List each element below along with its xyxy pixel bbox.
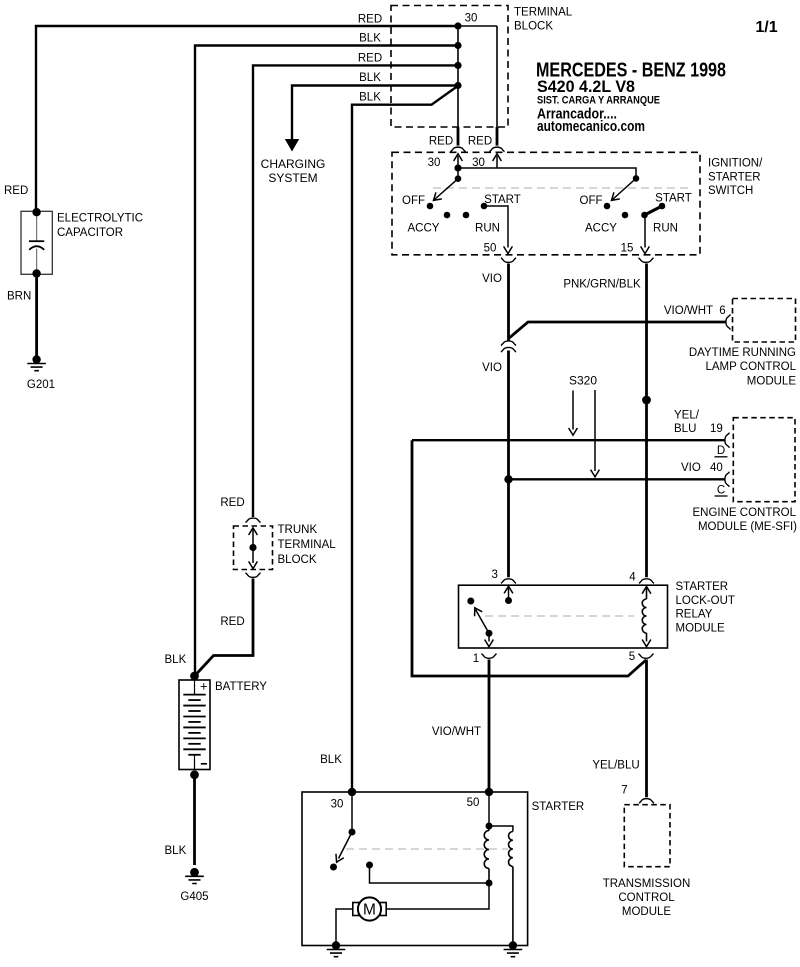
svg-text:SWITCH: SWITCH <box>708 185 753 197</box>
contact OFF left <box>427 203 434 210</box>
ignition/starter switch dashed box <box>392 152 700 255</box>
node trunk block dot <box>249 544 256 551</box>
motor M terminal tabs <box>353 903 386 916</box>
wire VIO/WHT branch to DRL module <box>509 322 727 339</box>
svg-text:D: D <box>717 445 725 457</box>
contact START right <box>659 203 666 210</box>
wire YEL/BLU to ECM pin D <box>412 439 725 441</box>
svg-text:VIO: VIO <box>482 273 502 285</box>
svg-text:RED: RED <box>4 185 28 197</box>
connector below relay pin 1 <box>481 654 496 658</box>
label IGNITION/STARTER SWITCH <box>708 157 763 197</box>
node starter switch pivot <box>349 829 356 836</box>
label page 1/1 <box>755 19 777 36</box>
svg-text:VIO/WHT: VIO/WHT <box>664 305 713 317</box>
daytime running lamp control module dashed box <box>733 299 796 343</box>
label 7 <box>621 785 627 797</box>
wire pull-in contact <box>370 865 490 883</box>
label RED W1 <box>358 14 382 26</box>
svg-text:IGNITION/: IGNITION/ <box>708 157 763 169</box>
label VIO upper <box>482 273 502 285</box>
label pin D <box>715 445 728 457</box>
svg-text:BLOCK: BLOCK <box>514 20 553 32</box>
label TERMINAL BLOCK <box>514 6 573 32</box>
svg-text:RED: RED <box>358 53 382 65</box>
connector at relay pin 4 <box>639 579 654 583</box>
trunk terminal block dashed box <box>234 526 273 570</box>
svg-text:RUN: RUN <box>653 223 678 235</box>
contact OFF right <box>604 203 611 210</box>
svg-text:19: 19 <box>710 423 723 435</box>
arrowhead to charging system <box>285 139 299 152</box>
svg-text:BLK: BLK <box>165 845 187 857</box>
svg-text:ENGINE CONTROL: ENGINE CONTROL <box>692 507 796 519</box>
svg-text:ACCY: ACCY <box>585 223 617 235</box>
contact ACCY right <box>622 212 629 219</box>
junction dot W4/W5 <box>454 82 461 89</box>
wire RUN to pin 15 <box>641 215 650 254</box>
terminal block dashed box <box>391 6 508 128</box>
svg-text:S420 4.2L V8: S420 4.2L V8 <box>537 78 635 96</box>
svg-text:CONTROL: CONTROL <box>618 892 675 904</box>
connector below pin 50 <box>501 258 516 262</box>
junction dot solenoid top <box>486 823 493 830</box>
label BRN <box>7 291 31 303</box>
svg-text:BATTERY: BATTERY <box>215 681 267 693</box>
junction dot battery positive <box>190 672 199 681</box>
label pin 1 <box>473 653 479 665</box>
starter solenoid feed <box>488 792 490 826</box>
svg-text:M: M <box>363 902 376 919</box>
wire PNK/GRN/BLK from pin 15 <box>645 264 648 578</box>
svg-text:STARTER: STARTER <box>708 172 761 184</box>
ground dot G405 <box>190 868 199 877</box>
wire BLK charging-system branch (W4) <box>292 86 458 141</box>
junction dot starter 50 <box>485 788 493 796</box>
label START right <box>655 193 692 205</box>
label BLK battery positive <box>165 654 187 666</box>
wire RED terminal block to switch 30 right <box>496 127 499 146</box>
svg-text:PNK/GRN/BLK: PNK/GRN/BLK <box>563 279 641 291</box>
svg-text:OFF: OFF <box>402 195 425 207</box>
svg-text:4: 4 <box>629 572 636 584</box>
label 30 starter <box>331 799 344 811</box>
svg-text:30: 30 <box>465 13 478 25</box>
connector below trunk terminal block <box>245 573 260 577</box>
label S320 <box>569 374 597 388</box>
svg-text:BLOCK: BLOCK <box>278 554 317 566</box>
transmission control module dashed box <box>624 805 670 867</box>
label - battery <box>201 763 207 765</box>
svg-text:DAYTIME RUNNING: DAYTIME RUNNING <box>689 347 796 359</box>
ground dot starter left <box>332 941 340 949</box>
wire YEL/BLU relay pin5 to TCM <box>645 660 648 798</box>
svg-text:MODULE: MODULE <box>622 906 672 918</box>
battery box <box>179 680 210 770</box>
connector below relay pin 5 <box>638 654 653 658</box>
ground symbol starter right <box>504 950 523 957</box>
svg-text:MODULE: MODULE <box>676 623 726 635</box>
svg-text:S320: S320 <box>569 374 597 388</box>
label RUN right <box>653 223 678 235</box>
contact RUN right <box>641 212 648 219</box>
label DAYTIME RUNNING LAMP CONTROL MODULE <box>689 347 797 388</box>
svg-text:5: 5 <box>629 651 635 663</box>
svg-text:OFF: OFF <box>580 195 603 207</box>
label ENGINE CONTROL MODULE (ME-SFI) <box>692 507 797 533</box>
wire BLK to terminal block (W2) <box>195 46 458 677</box>
contact RUN left <box>463 212 470 219</box>
label 50 <box>484 243 497 255</box>
label pin 5 <box>629 651 635 663</box>
svg-text:CHARGING: CHARGING <box>261 157 326 171</box>
junction dot W3 <box>454 62 461 69</box>
relay pin 1 lead <box>485 633 494 646</box>
svg-text:VIO/WHT: VIO/WHT <box>432 726 481 738</box>
svg-text:RELAY: RELAY <box>676 609 713 621</box>
ground symbol G201 <box>27 364 46 371</box>
label OFF left <box>402 195 425 207</box>
node relay arm fixed contact <box>467 598 474 605</box>
label ACCY left <box>408 223 440 235</box>
connector at TCM pin 7 <box>639 799 654 803</box>
label PNK/GRN/BLK <box>563 279 641 291</box>
solenoid pull-in winding <box>509 832 513 946</box>
node relay pin3 dot <box>505 597 512 604</box>
label ELECTROLYTIC CAPACITOR <box>57 213 143 240</box>
starter lock-out relay module box <box>459 585 668 648</box>
label BLK W2 <box>359 33 381 45</box>
label pin 3 <box>491 569 497 581</box>
label STARTER <box>532 801 585 813</box>
svg-text:ELECTROLYTIC: ELECTROLYTIC <box>57 213 143 225</box>
junction dot VIO/C <box>504 475 512 483</box>
junction dot battery negative <box>190 770 199 779</box>
trunk block lead upper <box>249 528 258 548</box>
svg-text:automecanico.com: automecanico.com <box>537 118 645 135</box>
label TRANSMISSION CONTROL MODULE <box>603 878 691 918</box>
label 50 starter <box>467 797 480 809</box>
junction dot capacitor bottom <box>32 269 40 277</box>
label M motor <box>363 902 376 919</box>
svg-text:YEL/: YEL/ <box>674 409 700 421</box>
label TRUNK TERMINAL BLOCK <box>278 524 337 566</box>
svg-text:VIO: VIO <box>681 462 701 474</box>
switch arm left (to OFF) <box>431 179 458 204</box>
wire BLK starter feed (W5) <box>352 87 457 793</box>
mechanical link dashed (starter) <box>346 848 508 850</box>
wire motor to solenoid contact <box>386 883 489 909</box>
svg-text:15: 15 <box>621 243 634 255</box>
capacitor C1 plate flat <box>29 240 44 242</box>
wire pivot stub left <box>457 168 459 179</box>
starter switch arm <box>333 832 352 864</box>
wire START to pin 50 <box>484 206 512 254</box>
label YEL/BLU lower <box>592 760 639 772</box>
label BATTERY <box>215 681 267 693</box>
connector at switch 30 left <box>450 147 465 151</box>
svg-text:6: 6 <box>719 305 725 317</box>
ground symbol starter left <box>327 950 346 957</box>
mechanical link dashed (ignition) <box>433 187 688 189</box>
svg-text:YEL/BLU: YEL/BLU <box>592 760 639 772</box>
svg-text:1/1: 1/1 <box>755 19 777 36</box>
junction dot bus left <box>454 164 461 171</box>
svg-text:MODULE: MODULE <box>747 376 797 388</box>
solenoid hold-in winding <box>484 826 489 883</box>
electrolytic capacitor C1 box <box>21 211 52 274</box>
ground dot G201 <box>32 355 40 363</box>
svg-text:STARTER: STARTER <box>532 801 585 813</box>
svg-text:7: 7 <box>621 785 627 797</box>
label 30 left <box>428 157 441 169</box>
svg-text:50: 50 <box>484 243 497 255</box>
svg-text:MODULE (ME-SFI): MODULE (ME-SFI) <box>698 521 797 533</box>
svg-text:TRANSMISSION: TRANSMISSION <box>603 878 691 890</box>
svg-text:TERMINAL: TERMINAL <box>514 6 573 18</box>
connector at switch 30 right <box>489 147 504 151</box>
label BLK W4 <box>359 72 381 84</box>
junction dot solenoid bottom <box>486 880 493 887</box>
title MERCEDES - BENZ 1998 <box>536 60 726 82</box>
svg-text:BLK: BLK <box>359 92 381 104</box>
svg-text:40: 40 <box>710 462 723 474</box>
label pin 4 <box>629 572 636 584</box>
junction dot starter 30 <box>348 788 356 796</box>
connector at ECM pin C <box>725 472 729 487</box>
capacitor C1 top lead <box>36 212 38 241</box>
relay switch arm <box>471 606 489 634</box>
svg-text:BRN: BRN <box>7 291 31 303</box>
svg-text:BLK: BLK <box>359 72 381 84</box>
svg-text:BLK: BLK <box>359 33 381 45</box>
switch arm right (to OFF) <box>609 178 636 203</box>
svg-text:RED: RED <box>429 136 453 148</box>
junction dot on PNK/GRN/BLK wire <box>642 396 651 405</box>
wire loop ECM-D to relay pin 5 <box>412 440 646 676</box>
label CHARGING SYSTEM <box>261 157 326 185</box>
svg-text:START: START <box>655 193 692 205</box>
svg-text:RUN: RUN <box>475 223 500 235</box>
svg-text:G201: G201 <box>27 379 55 391</box>
splice arrow S320 to VIO wire <box>591 390 600 477</box>
starter motor M <box>358 897 381 920</box>
capacitor C1 plate curved <box>29 246 44 250</box>
switch blade RUN-START <box>645 206 663 215</box>
label VIO/WHT lower <box>432 726 481 738</box>
svg-text:RED: RED <box>358 14 382 26</box>
junction dot W1 <box>454 22 461 29</box>
svg-text:50: 50 <box>467 797 480 809</box>
label RED lower <box>220 616 244 628</box>
junction dot capacitor top <box>32 208 40 216</box>
label START left <box>484 194 521 206</box>
wire VIO to relay pin 3 <box>507 351 510 578</box>
node relay arm pivot <box>486 630 493 637</box>
svg-text:CAPACITOR: CAPACITOR <box>57 227 123 239</box>
node switch pivot right <box>633 175 640 182</box>
label G201 <box>27 379 55 391</box>
wire RED terminal block to switch 30 left <box>457 127 460 146</box>
ground dot starter right <box>509 941 517 949</box>
battery cell plates <box>183 680 205 770</box>
connector at ECM pin D <box>725 433 729 448</box>
splice arrow S320 to YEL/BLU wire <box>569 391 578 436</box>
svg-text:30: 30 <box>472 157 485 169</box>
ground symbol G405 <box>185 876 204 883</box>
label + battery <box>200 679 208 694</box>
label RUN left <box>475 223 500 235</box>
label RED left feeder <box>429 136 453 148</box>
svg-text:START: START <box>484 194 521 206</box>
capacitor C1 bottom lead <box>36 249 38 274</box>
svg-text:VIO: VIO <box>482 362 502 374</box>
wire RED trunk feed (W3) <box>253 65 458 517</box>
connector at DRL module <box>726 314 730 329</box>
svg-text:C: C <box>717 484 725 496</box>
label RED right feeder <box>468 136 492 148</box>
svg-text:3: 3 <box>491 569 497 581</box>
svg-text:RED: RED <box>468 136 492 148</box>
wire VIO to ECM pin C <box>509 478 726 480</box>
svg-text:1: 1 <box>473 653 479 665</box>
wire RED trunk block to battery <box>195 579 254 677</box>
label STARTER LOCK-OUT RELAY MODULE <box>676 581 735 635</box>
wire motor to ground <box>336 909 353 946</box>
wire VIO from pin 50 <box>507 264 510 341</box>
starter box <box>302 792 528 946</box>
connector above trunk terminal block <box>245 518 260 522</box>
svg-text:BLK: BLK <box>320 754 342 766</box>
label BLK starter feed <box>320 754 342 766</box>
pin 30 arrow left <box>454 154 463 168</box>
svg-text:30: 30 <box>331 799 344 811</box>
contact starter switch <box>330 864 337 871</box>
svg-text:TRUNK: TRUNK <box>278 524 318 536</box>
svg-text:RED: RED <box>220 497 244 509</box>
svg-text:BLU: BLU <box>674 423 696 435</box>
trunk block lead lower <box>249 548 258 569</box>
label G405 <box>180 891 208 903</box>
title Arrancador.... <box>537 106 617 123</box>
label YEL/BLU 19 <box>674 409 723 435</box>
svg-text:+: + <box>200 679 208 694</box>
svg-text:BLK: BLK <box>165 654 187 666</box>
mechanical link dashed (relay) <box>485 615 634 617</box>
contact dot pull-in <box>366 862 373 869</box>
label BLK ground lead <box>165 845 187 857</box>
label 30 terminal block <box>465 13 478 25</box>
label VIO middle <box>482 362 502 374</box>
svg-text:STARTER: STARTER <box>676 581 729 593</box>
label VIO/WHT 6 <box>664 305 726 317</box>
svg-text:TERMINAL: TERMINAL <box>278 539 337 551</box>
inline connector on VIO wire <box>501 341 516 352</box>
wire RED battery feed to terminal block (W1) <box>36 26 458 212</box>
relay coil K1 <box>642 587 651 647</box>
junction dot W2 <box>454 42 461 49</box>
label RED capacitor lead <box>4 185 28 197</box>
node switch pivot left <box>455 175 462 182</box>
connector at relay pin 3 <box>501 579 516 583</box>
title automecanico.com <box>537 118 645 135</box>
title SIST. CARGA Y ARRANQUE <box>537 95 660 107</box>
wire BLK battery to ground G405 <box>193 775 196 865</box>
label ACCY right <box>585 223 617 235</box>
relay pin 3 lead <box>504 586 513 600</box>
terminal block bus wire <box>458 26 497 127</box>
svg-text:ACCY: ACCY <box>408 223 440 235</box>
label OFF right <box>580 195 603 207</box>
label BLK W5 <box>359 92 381 104</box>
wire BRN to ground <box>35 274 38 360</box>
engine control module dashed box <box>733 418 795 502</box>
label RED above trunk block <box>220 497 244 509</box>
wire switch bus 30 <box>458 168 636 178</box>
label VIO 40 <box>681 462 723 474</box>
svg-text:SYSTEM: SYSTEM <box>268 171 317 185</box>
label 30 right <box>472 157 485 169</box>
contact ACCY left <box>444 212 451 219</box>
pin 30 arrow right <box>493 154 502 168</box>
label RED W3 <box>358 53 382 65</box>
svg-text:G405: G405 <box>180 891 208 903</box>
svg-text:LOCK-OUT: LOCK-OUT <box>676 595 735 607</box>
solenoid pull-in branch <box>489 826 513 832</box>
contact START left <box>481 203 488 210</box>
wire VIO/WHT relay pin1 to starter 50 <box>488 660 491 793</box>
title S420 4.2L V8 <box>537 78 635 96</box>
label pin C <box>715 484 728 496</box>
svg-text:30: 30 <box>428 157 441 169</box>
connector below pin 15 <box>638 258 653 262</box>
starter switch lead <box>351 792 353 832</box>
svg-text:LAMP CONTROL: LAMP CONTROL <box>705 361 796 373</box>
svg-text:RED: RED <box>220 616 244 628</box>
label 15 <box>621 243 634 255</box>
